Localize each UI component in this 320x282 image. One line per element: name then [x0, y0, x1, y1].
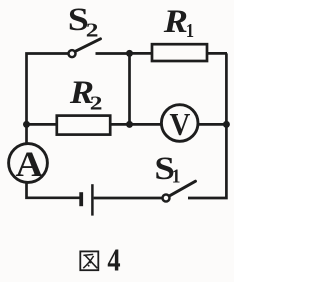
svg-text:4: 4 [107, 243, 121, 278]
wire: S1 fixed contact to bottom-right corner up right side [188, 53, 226, 198]
switch S1 pivot circle [163, 195, 170, 202]
wire: ammeter bottom to bottom-left corner to battery [27, 183, 80, 198]
node: junction dot middle (R2/V) [126, 121, 133, 128]
wire: R1 left lead from top junction [130, 52, 153, 55]
voltmeter letter V [170, 107, 191, 143]
svg-text:2: 2 [90, 91, 103, 114]
label R1 [163, 2, 188, 39]
resistor R1 box [152, 44, 207, 61]
switch S2 pivot circle [69, 50, 76, 57]
caption: hanzi TU (figure) drawn as strokes [80, 251, 98, 270]
ammeter letter A [16, 145, 44, 185]
label S1 [154, 150, 175, 187]
ammeter A1 circle [9, 144, 48, 183]
label S2 [68, 0, 89, 37]
switch S1 blade [169, 181, 196, 196]
wire: battery to switch S1 pivot [94, 197, 162, 200]
wire: voltmeter to right junction [198, 123, 227, 126]
svg-text:1: 1 [186, 20, 194, 43]
wire: top-left wire with left vertical down to ammeter [27, 54, 68, 143]
wire: S2 to top junction [96, 52, 130, 55]
battery negative short plate [79, 192, 83, 206]
node: junction dot right (V/right wire) [223, 121, 230, 128]
svg-text:V: V [170, 107, 191, 143]
battery positive long plate [91, 184, 94, 215]
caption: numeral 4 [107, 243, 121, 278]
svg-text:A: A [16, 145, 44, 185]
voltmeter V1 circle [161, 105, 198, 142]
label R2 [69, 74, 94, 111]
svg-text:R: R [163, 2, 188, 39]
wire: R2 right lead to middle junction and on to voltmeter [111, 123, 162, 126]
node: junction dot left (R2 tee) [23, 121, 30, 128]
wire: middle vertical between junctions [128, 54, 131, 125]
resistor R2 box [57, 116, 110, 135]
wire: R1 right lead [208, 52, 227, 55]
node: junction dot top (S2/R1) [126, 50, 133, 57]
wire: R2 left lead [27, 123, 58, 126]
svg-text:2: 2 [86, 18, 99, 41]
switch S2 blade [75, 39, 101, 52]
svg-text:1: 1 [172, 165, 181, 188]
